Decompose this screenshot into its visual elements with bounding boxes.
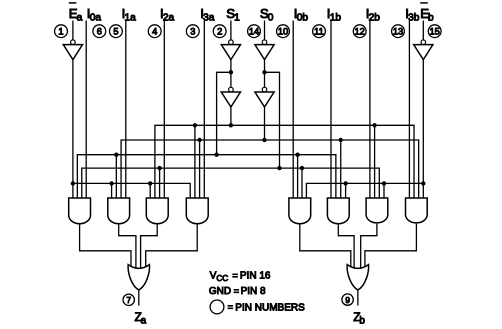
junction row2 gate A4 [197,138,201,142]
wire S0 inverted branch [265,72,280,168]
junction S1 inverted to row 3 [214,153,218,157]
junction row2 gate B2 [339,138,343,142]
pin 10 circle [277,25,290,38]
svg-text:1: 1 [234,13,240,24]
svg-text:a: a [141,315,147,326]
inverter U3 (S1 second) [229,87,234,92]
wire row4 drop to gate B1 [301,168,303,198]
wire S1 inverted branch [217,72,231,154]
wire I1a data line [125,21,127,199]
wire row3 S1 inverted bus [77,155,336,198]
wire row1 S1 true bus [155,125,414,198]
wire row4 drop to gate A3 [159,168,161,198]
wire gate A4 output [146,224,198,267]
and-gate B4 [406,198,428,223]
junction row4 gate A3 [157,166,161,170]
and-gate B3 [366,198,388,223]
or-gate A (Za) [128,265,149,290]
junction Ea gate A2 [109,181,113,185]
wire row2 drop to gate B2 [340,140,342,198]
wire Ea inverter output to gate A1 [72,60,74,198]
svg-text:7: 7 [126,295,131,305]
wire S0 between inverters [264,60,266,88]
svg-text:b: b [428,13,434,24]
svg-text:6: 6 [97,27,102,37]
junction Eb enable line [421,181,425,185]
wire row3 drop to gate B1 [297,155,299,198]
wire gate A1 output [80,224,131,267]
junction Ea gate A3 [148,181,152,185]
wire row2 drop to gate A4 [199,140,201,198]
or-gate B (Zb) [347,265,368,290]
inverter U4 (S0 first) [262,40,267,45]
junction row1 gate A4 [193,123,197,127]
wire I2a data line [163,21,165,199]
pin 1 circle [55,25,68,38]
pin 15 circle [428,25,441,38]
svg-text:GND: GND [209,286,231,297]
inverter U1 (Ea) [71,40,76,45]
wire Eb drop to gate B3 [383,183,385,198]
wire S1 input [230,21,232,40]
junction row3 gate B1 [295,153,299,157]
svg-text:0: 0 [268,13,274,24]
wire row1 drop to gate A4 [194,125,196,198]
wire row3 drop to gate A2 [115,155,117,198]
svg-text:14: 14 [249,27,259,37]
inverter U6 (Eb) [421,40,426,45]
junction Eb gate B2 [343,181,347,185]
wire S0 true to row 2 [264,107,266,140]
wire I3a data line [203,21,205,199]
and-gate A4 [186,198,208,224]
wire I0a data line [85,21,87,199]
junction Ea enable line [71,181,75,185]
and-gate A1 [69,198,91,224]
wire S1 between inverters [230,60,232,88]
junction S0 inverted node [262,70,266,74]
wire I0b data line [292,21,294,199]
junction S1 true to row 1 [229,123,233,127]
svg-text:12: 12 [355,27,365,37]
wire Zb output [357,290,359,306]
wire row1 drop to gate B3 [374,125,376,198]
input label Eb (active low) [420,2,428,4]
inverter U2 (S1 first) [229,40,234,45]
svg-text:PIN 16: PIN 16 [240,271,271,282]
wire Za output [138,290,140,306]
wire I3b data line [408,21,410,199]
junction S1 inverted node [229,70,233,74]
and-gate A2 [108,198,130,224]
svg-text:b: b [359,315,365,326]
pin 12 circle [353,25,366,38]
pin 9 circle [342,294,353,305]
wire Ea drop to gate A3 [149,183,151,198]
wire gate B4 output [365,224,417,267]
wire S1 true to row 1 [230,107,232,125]
svg-text:15: 15 [430,27,440,37]
junction row3 gate A2 [114,153,118,157]
svg-text:a: a [77,13,83,24]
wire gate B1 output [300,224,351,267]
legend pin-numbers circle [210,300,224,314]
pin 2 circle [213,25,226,38]
wire gate B3 output [361,224,377,269]
wire gate A3 output [141,224,158,269]
junction row4 gate B1 [300,166,304,170]
svg-text:CC: CC [216,274,228,283]
svg-text:0a: 0a [90,13,102,24]
pin 6 circle [93,25,106,38]
svg-text:PIN 8: PIN 8 [241,286,266,297]
svg-text:=: = [232,270,237,280]
input label Ea (active low) [69,2,77,4]
and-gate A3 [146,198,168,224]
svg-text:13: 13 [393,27,403,37]
svg-text:9: 9 [345,295,350,305]
wire I2b data line [369,21,371,199]
svg-text:2: 2 [217,27,222,37]
wire Eb drop to gate B2 [345,183,347,198]
pin 3 circle [186,25,199,38]
junction row1 gate B3 [372,123,376,127]
junction S0 inverted to row 4 [277,166,281,170]
inverter U5 (S0 second) [262,87,267,92]
svg-text:1: 1 [58,27,63,37]
pin 13 circle [392,25,405,38]
wire row2 S0 true bus [121,140,419,198]
svg-text:5: 5 [113,27,118,37]
pin 4 circle [148,25,161,38]
svg-text:4: 4 [152,27,157,37]
wire gate A2 output [119,224,136,269]
wire row4 S0 inverted bus [82,168,380,198]
pin 14 circle [248,25,261,38]
wire Eb inverter output to gate B4 [422,60,424,198]
pin 5 circle [110,25,123,38]
svg-text:=: = [228,302,233,312]
wire Eb input [422,21,424,40]
and-gate B2 [327,198,349,224]
wire gate B2 output [338,224,354,269]
wire Ea input [72,21,74,40]
wire S0 input [264,21,266,40]
junction Eb gate B3 [382,181,386,185]
svg-text:0b: 0b [297,13,309,24]
svg-text:10: 10 [278,27,288,37]
wire Ea enable bus [73,183,190,198]
pin 7 circle [123,294,134,305]
svg-text:3: 3 [190,27,195,37]
wire Ea drop to gate A2 [111,183,113,198]
svg-text:=: = [234,286,239,296]
pin 11 circle [313,25,326,38]
junction S0 true to row 2 [262,138,266,142]
svg-text:11: 11 [314,27,324,37]
wire Eb enable bus [306,183,423,198]
wire I1b data line [330,21,332,199]
svg-text:PIN NUMBERS: PIN NUMBERS [235,302,305,313]
and-gate B1 [289,198,311,224]
